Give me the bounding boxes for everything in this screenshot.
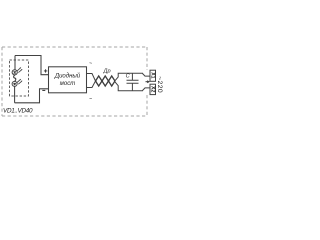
connector X2 [149, 84, 155, 94]
diode bridge box U1 [49, 67, 87, 93]
wire: bridge AC bottom to choke [87, 81, 96, 88]
wire: choke to capacitor loop bottom [115, 81, 151, 91]
label - [42, 89, 45, 91]
svg-text:~: ~ [89, 97, 92, 103]
wire: squiggle (omitted LEDs) [14, 75, 16, 82]
LED VD40 [12, 81, 17, 86]
capacitor C [127, 73, 139, 91]
svg-text:Др: Др [103, 69, 111, 75]
svg-text:мост: мост [60, 81, 75, 87]
wire: plus rail to bridge [15, 56, 49, 75]
svg-text:X1: X1 [149, 72, 155, 78]
svg-text:~: ~ [89, 61, 92, 67]
choke Dr winding B [96, 81, 116, 86]
svg-text:С: С [126, 73, 131, 79]
plug arrow (detachable connection) [146, 81, 148, 83]
choke Dr winding A [96, 76, 116, 81]
label + [44, 69, 47, 72]
LED VD1 [12, 70, 17, 75]
wire: minus rail to bridge [15, 89, 49, 103]
wire: bridge AC top to choke [87, 74, 96, 82]
LED VD1 emission arrows [17, 67, 22, 72]
LED VD40 emission arrows [17, 79, 22, 84]
enclosure dashed boundary [2, 47, 147, 116]
svg-text:VD1..VD40: VD1..VD40 [3, 107, 33, 114]
wire: choke to capacitor loop top [115, 73, 151, 81]
wire: LED string bottom lead [14, 86, 16, 102]
svg-text:~220: ~220 [156, 76, 163, 93]
connector X1 [149, 70, 155, 81]
svg-text:X2: X2 [149, 86, 155, 92]
choke crossing dots [95, 80, 115, 82]
svg-text:Диодный: Диодный [54, 73, 81, 80]
wire: LED string top lead [14, 56, 16, 71]
LED module dashed box [10, 60, 29, 96]
